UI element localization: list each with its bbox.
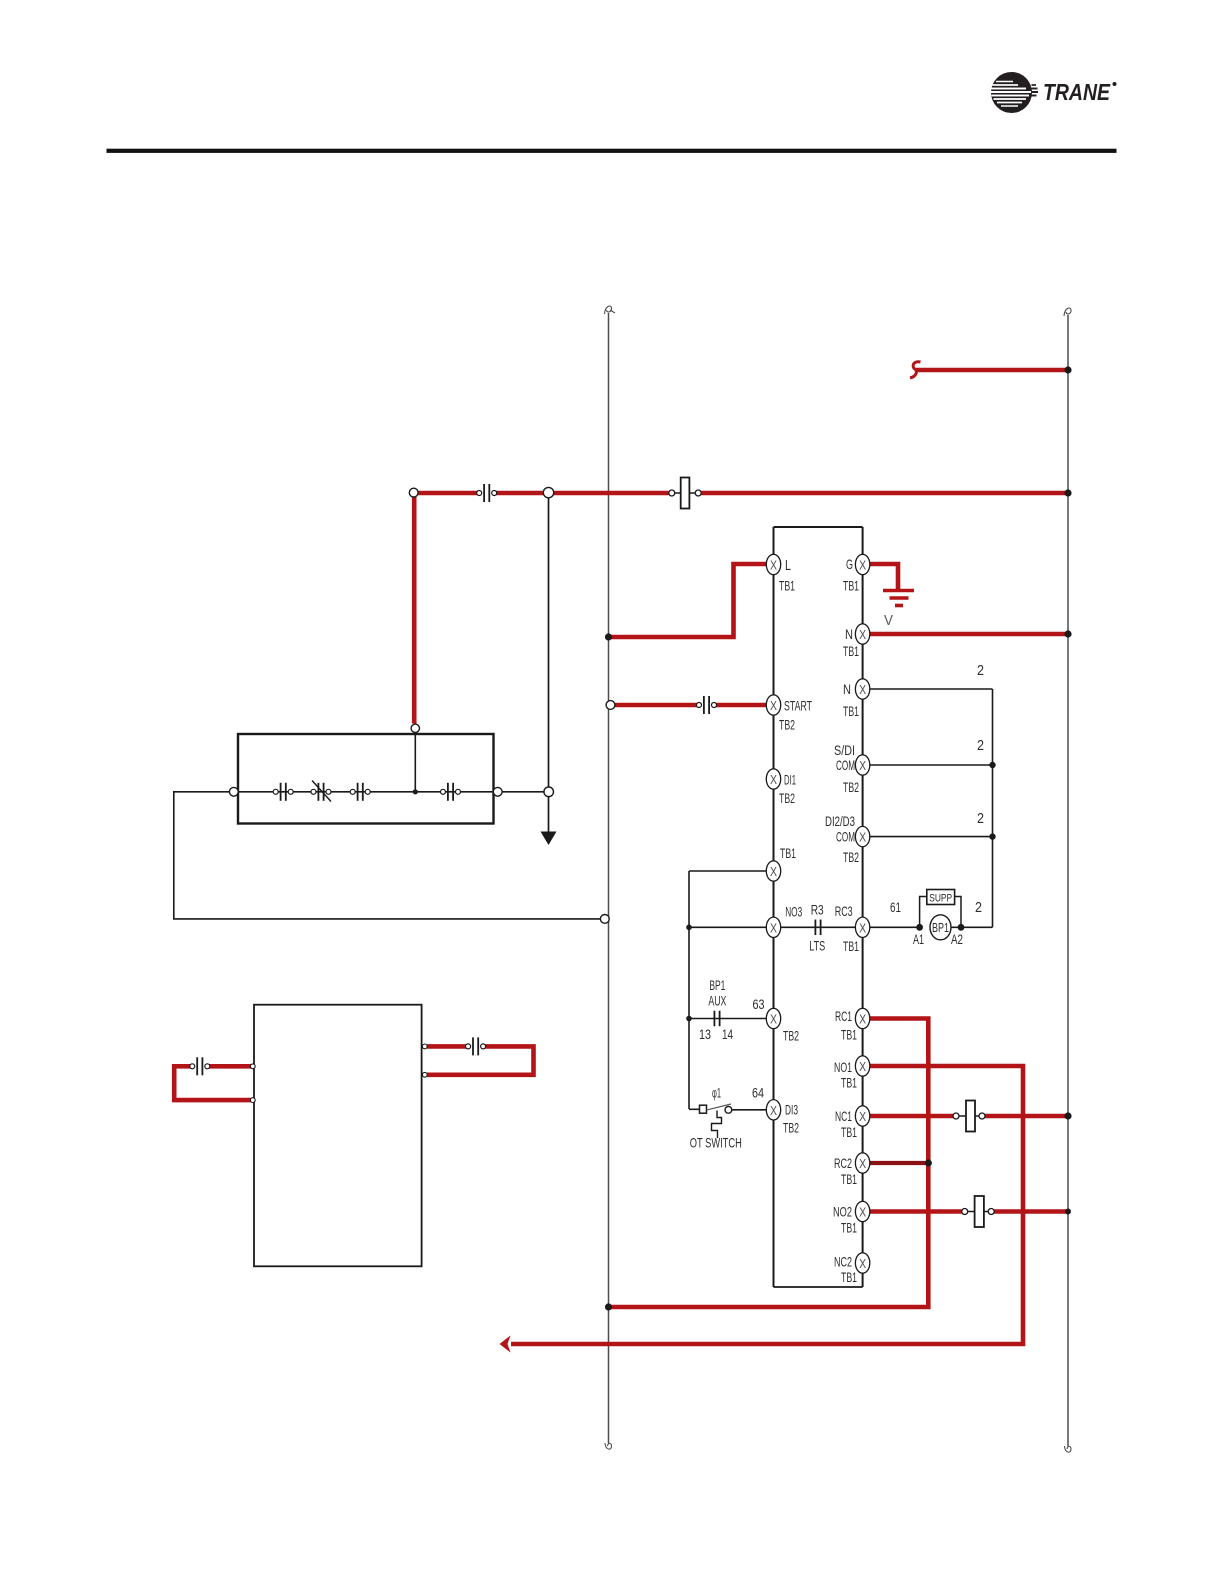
svg-text:X: X	[859, 1109, 866, 1124]
wire: START into terminal	[714, 703, 767, 708]
svg-text:X: X	[859, 1012, 866, 1027]
contact K2 NC (relay box)	[311, 783, 331, 801]
terminal DI1 TB2	[766, 769, 780, 789]
svg-text:S/DI: S/DI	[834, 742, 855, 758]
svg-text:OT SWITCH: OT SWITCH	[690, 1135, 742, 1151]
svg-text:RC1: RC1	[835, 1008, 852, 1024]
wire: S/DI COM to net 2	[870, 764, 993, 766]
svg-text:14: 14	[722, 1026, 733, 1042]
svg-text:G: G	[846, 556, 853, 572]
svg-text:N: N	[843, 681, 851, 697]
terminal 63 TB2	[766, 1008, 780, 1028]
wire: BP1 AUX contact line to 63	[689, 1018, 767, 1020]
svg-text:TB1: TB1	[841, 1220, 857, 1236]
terminal RC3 TB1	[855, 917, 869, 937]
wire: NO3 to left branch	[689, 926, 774, 928]
wire: down to relay box top pin	[412, 496, 417, 724]
UCM control box	[774, 527, 863, 1287]
pin: line feed corner	[409, 488, 418, 497]
svg-text:2: 2	[977, 737, 984, 754]
wire: NO3 to RC3 through LTS	[781, 926, 856, 928]
arrow left (field wiring)	[500, 1336, 511, 1353]
svg-text:RC3: RC3	[835, 903, 853, 919]
svg-text:START: START	[784, 698, 812, 714]
svg-text:TB2: TB2	[779, 790, 795, 806]
wire: remote box right loop	[427, 1044, 467, 1049]
wire: junction at fuse line down to arrow	[548, 493, 550, 833]
junction: RC2 tap	[925, 1159, 932, 1166]
header rule	[107, 149, 1117, 153]
terminal TB1 aux	[766, 861, 780, 881]
junction A1	[916, 924, 923, 931]
right power rail	[1064, 308, 1071, 1452]
wire: field power feed (top right, broken end)	[910, 362, 1068, 378]
contact (remote box right)	[466, 1037, 486, 1055]
svg-text:TB1: TB1	[843, 643, 859, 659]
wire: G terminal to earth ground	[870, 564, 898, 589]
svg-text:64: 64	[752, 1085, 764, 1101]
svg-text:X: X	[859, 1205, 866, 1220]
terminal NO1 TB1	[855, 1056, 869, 1076]
svg-text:TB1: TB1	[843, 578, 859, 594]
remote device box (lower left)	[254, 1005, 422, 1267]
svg-text:TB1: TB1	[780, 845, 796, 861]
svg-text:NC2: NC2	[834, 1254, 852, 1270]
svg-text:BP1: BP1	[932, 920, 949, 935]
svg-text:X: X	[859, 1156, 866, 1171]
svg-text:X: X	[859, 558, 866, 573]
wire: BP1 A2 to net 2	[951, 926, 993, 928]
svg-text:X: X	[770, 1103, 777, 1118]
svg-text:A1: A1	[913, 931, 924, 947]
svg-text:TB1: TB1	[843, 938, 859, 954]
contact BP1 AUX 13-14	[714, 1011, 719, 1027]
wire: net 2 vertical	[992, 689, 994, 927]
wire: NO1 out (to arrow)	[511, 1066, 1023, 1344]
svg-text:SUPP: SUPP	[929, 893, 952, 905]
junction: left branch at NO3	[686, 925, 692, 931]
wire: NO2 fuse to right rail	[994, 1209, 1068, 1214]
terminal DI2/D3 COM TB2	[855, 826, 869, 846]
pin: remote box left bottom	[250, 1098, 255, 1103]
svg-text:DI1: DI1	[784, 772, 796, 788]
svg-text:X: X	[859, 920, 866, 935]
left power rail	[605, 306, 616, 1449]
junction: RC1 return on left rail	[605, 1303, 612, 1310]
svg-text:NO3: NO3	[785, 904, 802, 920]
terminal L TB1	[766, 554, 780, 574]
svg-text:TB2: TB2	[779, 717, 795, 733]
junction: net 2 at S/DI COM	[989, 762, 995, 768]
pin: relay box top	[411, 724, 419, 732]
junction: net 2 at DI2/D3 COM	[989, 833, 995, 839]
pin: remote box left top	[250, 1064, 255, 1069]
junction: left branch at BP1 AUX	[686, 1016, 692, 1022]
wire: from top pin into relay box	[414, 732, 416, 792]
svg-text:63: 63	[753, 996, 765, 1012]
svg-text:X: X	[859, 758, 866, 773]
wire: RC3 to BP1 coil (61)	[870, 926, 920, 928]
svg-text:2: 2	[975, 899, 982, 916]
contact R3 LTS	[815, 920, 820, 936]
terminal N TB1 (signal)	[855, 679, 869, 699]
svg-text:COM: COM	[836, 829, 855, 845]
pin: tap to relay logic	[543, 487, 553, 497]
wire: remote box left loop	[209, 1064, 254, 1069]
svg-text:DI2/D3: DI2/D3	[825, 813, 855, 829]
svg-text:TB2: TB2	[843, 779, 859, 795]
OT switch	[689, 1104, 767, 1138]
wire: left branch vertical	[688, 871, 690, 1109]
wire: relay box right pin to sense line	[502, 791, 544, 793]
svg-text:X: X	[770, 698, 777, 713]
wire: RC2 to tap	[870, 1161, 925, 1165]
contact (START enable)	[697, 696, 717, 714]
wire: NO2 to fuse	[870, 1209, 962, 1214]
svg-text:X: X	[770, 558, 777, 573]
contact K4 (relay box)	[441, 783, 461, 801]
pin: remote box right bottom	[422, 1072, 427, 1077]
wire: N terminal to right rail	[870, 632, 1068, 637]
wire: N TB1 to net 2	[870, 688, 993, 690]
svg-text:TB1: TB1	[843, 703, 859, 719]
pin: on sense line	[544, 787, 554, 797]
svg-text:TB1: TB1	[841, 1124, 857, 1140]
svg-text:TB1: TB1	[779, 578, 795, 594]
contact (line feed)	[477, 484, 497, 502]
svg-text:61: 61	[890, 899, 901, 915]
junction: line feed on right rail	[1064, 489, 1071, 496]
wire: L terminal feed from left rail	[609, 564, 767, 637]
svg-text:2: 2	[977, 662, 984, 679]
wire: terminal X to left branch	[689, 870, 774, 872]
svg-text:φ1: φ1	[712, 1085, 721, 1101]
arrow down (to load below)	[541, 832, 557, 846]
terminal RC2 TB1	[855, 1153, 869, 1173]
svg-text:TB2: TB2	[783, 1028, 799, 1044]
contact K1 (relay box)	[273, 783, 293, 801]
terminal G TB1	[855, 554, 869, 574]
wire: DI2/D3 COM to net 2	[870, 836, 993, 838]
svg-text:X: X	[859, 1256, 866, 1271]
junction: coil feed in relay box	[413, 789, 418, 794]
svg-text:R3: R3	[811, 902, 824, 918]
terminal RC1 TB1	[855, 1008, 869, 1028]
earth ground (red)	[883, 591, 914, 606]
svg-text:TB1: TB1	[841, 1269, 857, 1285]
BP1 coil	[930, 915, 951, 940]
svg-text:A2: A2	[951, 931, 963, 947]
suppressor SUPP across BP1 coil	[920, 890, 961, 926]
pin: START on left rail	[606, 701, 615, 710]
svg-text:TB1: TB1	[841, 1027, 857, 1043]
junction: N on right rail	[1064, 630, 1071, 637]
svg-text:BP1: BP1	[709, 977, 725, 993]
junction: NC1 on right rail	[1064, 1112, 1071, 1119]
fuse F1 (line)	[669, 478, 701, 509]
svg-text:X: X	[770, 1012, 777, 1027]
terminal N TB1 (power)	[855, 624, 869, 644]
wire: relay box left pin to left rail	[174, 792, 604, 919]
terminal NO2 TB1	[855, 1201, 869, 1221]
svg-text:X: X	[859, 830, 866, 845]
terminal NC2 TB1	[855, 1253, 869, 1273]
wire: line feed to fuse	[497, 491, 669, 496]
svg-text:X: X	[859, 682, 866, 697]
NC slash on contact K2	[312, 781, 331, 802]
svg-text:NO2: NO2	[833, 1204, 852, 1220]
terminal START TB2	[766, 695, 780, 715]
svg-text:X: X	[770, 864, 777, 879]
svg-text:X: X	[770, 772, 777, 787]
svg-text:TB1: TB1	[841, 1075, 857, 1091]
svg-text:N: N	[845, 626, 853, 642]
wire: RC1 to left rail (bottom)	[609, 1019, 929, 1308]
junction: feed on right rail	[1064, 366, 1071, 373]
svg-text:TB2: TB2	[843, 849, 859, 865]
svg-text:X: X	[859, 1059, 866, 1074]
svg-text:L: L	[785, 557, 791, 574]
wire: line fuse feed left segment	[414, 491, 477, 496]
wire: NC1 to fuse	[870, 1114, 953, 1119]
svg-text:NC1: NC1	[835, 1108, 852, 1124]
svg-text:LTS: LTS	[809, 937, 825, 953]
fuse F3 (NO2)	[962, 1196, 995, 1227]
wire: contact chain inside relay box	[238, 791, 494, 793]
svg-text:RC2: RC2	[834, 1155, 852, 1171]
relay logic box (upper left)	[238, 734, 494, 824]
terminal S/DI COM TB2	[855, 755, 869, 775]
pin: remote box right top	[422, 1044, 427, 1049]
fuse F2 (NC1)	[953, 1101, 985, 1132]
svg-text:2: 2	[977, 810, 984, 827]
pin: relay box left	[229, 787, 238, 796]
svg-text:DI3: DI3	[785, 1102, 798, 1118]
svg-text:13: 13	[699, 1026, 711, 1042]
terminal DI3 TB2	[766, 1100, 780, 1120]
svg-text:V: V	[884, 612, 893, 629]
wire: START from left rail	[613, 703, 698, 708]
svg-text:X: X	[859, 627, 866, 642]
svg-text:TB2: TB2	[783, 1120, 799, 1136]
svg-text:NO1: NO1	[834, 1059, 852, 1075]
svg-text:TB1: TB1	[841, 1171, 857, 1187]
pin: on left rail (relay return)	[600, 915, 609, 924]
wire: NC1 fuse to right rail	[985, 1114, 1068, 1119]
contact K3 (relay box)	[350, 783, 370, 801]
wire: fuse to right rail	[701, 491, 1068, 496]
Trane logo	[991, 72, 1117, 113]
svg-text:COM: COM	[836, 757, 855, 773]
junction: NO2 on right rail	[1065, 1209, 1071, 1215]
pin: relay box right	[493, 787, 502, 796]
svg-text:AUX: AUX	[708, 993, 726, 1009]
svg-text:TRANE: TRANE	[1043, 79, 1111, 105]
junction: L feed on left rail	[605, 633, 612, 640]
terminal NO3	[766, 917, 780, 937]
svg-text:X: X	[770, 920, 777, 935]
contact (remote box left)	[190, 1057, 210, 1075]
terminal NC1 TB1	[855, 1106, 869, 1126]
junction A2	[958, 924, 965, 931]
